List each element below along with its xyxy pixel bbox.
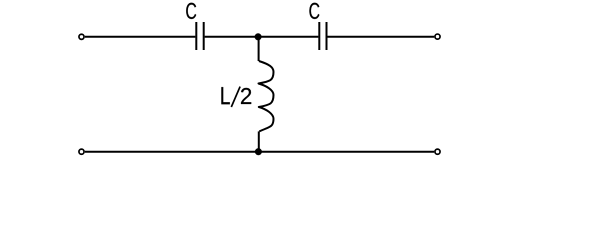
label C (C1) xyxy=(186,3,196,19)
wire top-middle (C1 to C2 through node) xyxy=(205,36,319,38)
label L/2 : letter L xyxy=(221,87,229,104)
terminal bottom-right xyxy=(435,149,440,154)
node junction dot top xyxy=(255,33,262,40)
label L/2 : slash xyxy=(231,87,240,107)
capacitor C1 plates xyxy=(196,22,203,50)
terminal bottom-left xyxy=(79,149,84,154)
wire top-right (C2 to terminal) xyxy=(327,36,434,38)
terminal top-right xyxy=(435,34,440,39)
wire top-left (terminal to C1) xyxy=(85,36,195,38)
wire node to inductor xyxy=(258,37,260,61)
wire inductor to bottom node xyxy=(258,131,260,151)
node junction dot bottom xyxy=(255,148,262,155)
terminal top-left xyxy=(79,34,84,39)
wire bottom rail xyxy=(85,151,434,153)
label C (C2) xyxy=(309,3,319,19)
inductor L/2 coil xyxy=(259,61,274,131)
capacitor C2 plates xyxy=(319,22,326,50)
label L/2 : digit 2 xyxy=(241,88,251,104)
